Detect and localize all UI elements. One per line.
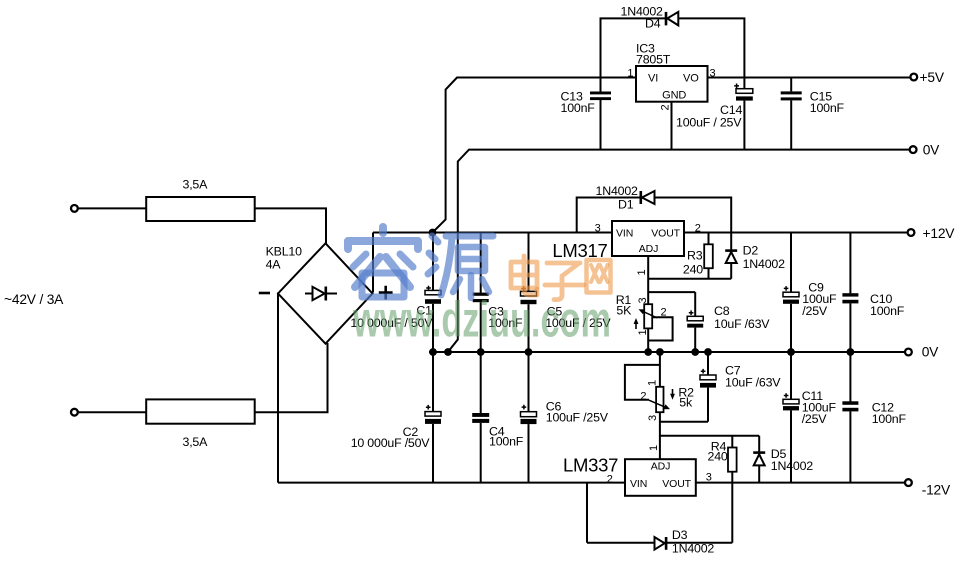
svg-text:ADJ: ADJ bbox=[639, 243, 659, 255]
node dots on 0V rail bbox=[429, 348, 854, 356]
svg-text:VI: VI bbox=[648, 73, 658, 85]
svg-text:1N4002: 1N4002 bbox=[771, 459, 814, 473]
svg-text:100uF / 25V: 100uF / 25V bbox=[676, 115, 742, 129]
regulator U1 LM317 bbox=[552, 221, 700, 276]
terminal +12V bbox=[908, 226, 956, 241]
capacitor C15 100nF bbox=[781, 78, 845, 150]
resistor R3 240 bbox=[683, 233, 713, 279]
capacitor C11 100uF/25V bbox=[783, 352, 836, 483]
wire D4 loop bbox=[601, 18, 745, 77]
svg-text:1N4002: 1N4002 bbox=[743, 257, 786, 271]
svg-text:1: 1 bbox=[636, 269, 648, 275]
plus sign bridge bbox=[379, 286, 393, 300]
svg-text:1: 1 bbox=[648, 445, 660, 451]
capacitor C14 100uF/25V bbox=[676, 78, 753, 150]
svg-text:3: 3 bbox=[595, 223, 601, 235]
svg-text:/25V: /25V bbox=[802, 304, 828, 318]
svg-text:www.dziuu.com: www.dziuu.com bbox=[352, 292, 611, 348]
svg-text:LM337: LM337 bbox=[563, 455, 618, 476]
svg-text:100nF: 100nF bbox=[872, 412, 907, 426]
svg-text:1: 1 bbox=[637, 329, 649, 335]
svg-text:3,5A: 3,5A bbox=[183, 435, 209, 449]
regulator U2 LM337 bbox=[563, 445, 712, 496]
regulator IC3 7805T bbox=[627, 41, 715, 110]
wire -12V rail bbox=[696, 482, 906, 484]
svg-text:3: 3 bbox=[647, 415, 659, 421]
svg-text:+5V: +5V bbox=[920, 70, 945, 85]
svg-text:240: 240 bbox=[683, 262, 703, 276]
wire +12V rail bbox=[684, 232, 907, 234]
diode D2 1N4002 bbox=[725, 233, 785, 279]
svg-text:D1: D1 bbox=[618, 197, 634, 211]
svg-text:100uF /25V: 100uF /25V bbox=[546, 410, 609, 424]
svg-text:D2: D2 bbox=[743, 243, 759, 257]
svg-text:VOUT: VOUT bbox=[662, 478, 691, 490]
svg-text:C8: C8 bbox=[714, 304, 730, 318]
svg-text:5k: 5k bbox=[679, 395, 693, 409]
svg-text:2: 2 bbox=[660, 104, 672, 110]
minus sign bridge bbox=[259, 292, 270, 295]
svg-text:4A: 4A bbox=[266, 257, 282, 271]
svg-text:5K: 5K bbox=[616, 304, 632, 318]
svg-text:D3: D3 bbox=[672, 528, 688, 542]
capacitor C8 10uF/63V bbox=[687, 292, 770, 352]
capacitor C3 100nF bbox=[473, 233, 523, 353]
terminal 0V mid bbox=[905, 344, 939, 359]
svg-text:10 000uF /50V: 10 000uF /50V bbox=[351, 436, 431, 450]
wire 0V return from top rail bbox=[449, 150, 911, 352]
wire D3 branch bbox=[587, 483, 732, 543]
resistor R4 240 bbox=[708, 436, 737, 543]
wire unregulated + rail bbox=[373, 232, 612, 234]
svg-text:/25V: /25V bbox=[802, 412, 828, 426]
capacitor C4 100nF bbox=[472, 352, 524, 483]
fuse F1 3,5A bbox=[146, 178, 255, 222]
svg-text:-12V: -12V bbox=[922, 483, 951, 498]
capacitor C1 10000uF/50V bbox=[350, 233, 441, 353]
wire bridge - down bbox=[277, 293, 279, 483]
wire fuse2 to bridge bottom corner bbox=[255, 343, 328, 412]
svg-text:1N4002: 1N4002 bbox=[596, 184, 639, 198]
svg-text:100nF: 100nF bbox=[561, 101, 596, 115]
svg-text:1: 1 bbox=[647, 380, 659, 386]
wire D1 loop bbox=[577, 198, 732, 233]
svg-text:2: 2 bbox=[661, 306, 667, 318]
wire input bottom to fuse bbox=[78, 411, 146, 413]
wire GND pin bbox=[671, 102, 673, 150]
node junction on + rail bbox=[429, 229, 437, 237]
terminal AC input top bbox=[71, 205, 78, 212]
capacitor C10 100nF bbox=[842, 233, 904, 353]
svg-text:ADJ: ADJ bbox=[651, 461, 671, 473]
svg-text:VOUT: VOUT bbox=[651, 228, 680, 240]
svg-text:R3: R3 bbox=[687, 248, 703, 262]
fuse F2 3,5A bbox=[146, 399, 255, 448]
bridge rectifier KBL10 4A bbox=[266, 243, 373, 343]
svg-text:0V: 0V bbox=[922, 344, 939, 359]
terminal +5V bbox=[910, 70, 944, 85]
diode D4 1N4002 bbox=[621, 5, 679, 31]
capacitor C12 100nF bbox=[842, 352, 906, 483]
wire negative rail bbox=[278, 482, 625, 484]
capacitor C7 10uF/63V bbox=[660, 352, 781, 422]
label ~42V / 3A bbox=[4, 292, 64, 307]
wire fuse to bridge top corner bbox=[255, 208, 326, 244]
capacitor C9 100uF/25V bbox=[783, 233, 837, 353]
capacitor C5 100uF/25V bbox=[521, 233, 612, 353]
svg-text:10uF /63V: 10uF /63V bbox=[714, 317, 770, 331]
potentiometer R1 5K bbox=[616, 293, 673, 352]
svg-text:2: 2 bbox=[607, 473, 613, 485]
svg-text:~42V / 3A: ~42V / 3A bbox=[4, 292, 64, 307]
svg-text:1: 1 bbox=[627, 68, 633, 80]
terminal -12V bbox=[905, 479, 951, 498]
svg-text:1N4002: 1N4002 bbox=[672, 541, 715, 555]
svg-text:3: 3 bbox=[637, 297, 649, 303]
svg-text:240: 240 bbox=[708, 450, 728, 464]
svg-text:100nF: 100nF bbox=[870, 304, 905, 318]
wire ADJ node LM317 bbox=[648, 256, 731, 304]
wire feed to 7805 input bbox=[433, 78, 637, 233]
svg-text:0V: 0V bbox=[923, 143, 940, 158]
svg-text:3,5A: 3,5A bbox=[183, 178, 209, 192]
capacitor C13 100nF bbox=[561, 78, 612, 150]
svg-text:2: 2 bbox=[640, 391, 646, 403]
wire input top to fuse bbox=[78, 207, 146, 209]
terminal 0V top bbox=[910, 143, 940, 158]
capacitor C2 10000uF/50V bbox=[351, 352, 441, 483]
svg-text:GND: GND bbox=[662, 89, 686, 101]
wire ADJ node LM337 bbox=[660, 435, 759, 437]
svg-text:KBL10: KBL10 bbox=[266, 244, 303, 258]
svg-text:VO: VO bbox=[683, 73, 699, 85]
svg-text:VIN: VIN bbox=[616, 228, 633, 240]
svg-text:VIN: VIN bbox=[630, 478, 647, 490]
potentiometer R2 5k bbox=[625, 352, 694, 459]
diode D3 1N4002 bbox=[655, 528, 715, 555]
svg-text:D4: D4 bbox=[645, 17, 661, 31]
terminal AC input bottom bbox=[71, 409, 78, 416]
wire +5V rail bbox=[708, 77, 911, 79]
svg-text:100nF: 100nF bbox=[810, 101, 845, 115]
svg-text:10uF /63V: 10uF /63V bbox=[725, 376, 781, 390]
diode D5 1N4002 bbox=[753, 436, 813, 483]
svg-text:7805T: 7805T bbox=[636, 53, 671, 67]
svg-text:100nF: 100nF bbox=[489, 435, 524, 449]
diode D1 1N4002 bbox=[596, 184, 655, 211]
watermark bbox=[348, 227, 611, 348]
svg-text:+12V: +12V bbox=[923, 226, 956, 241]
wire bridge + up to +rail bbox=[372, 233, 374, 293]
capacitor C6 100uF/25V bbox=[521, 352, 609, 483]
wire 0V mid rail bbox=[429, 351, 905, 353]
